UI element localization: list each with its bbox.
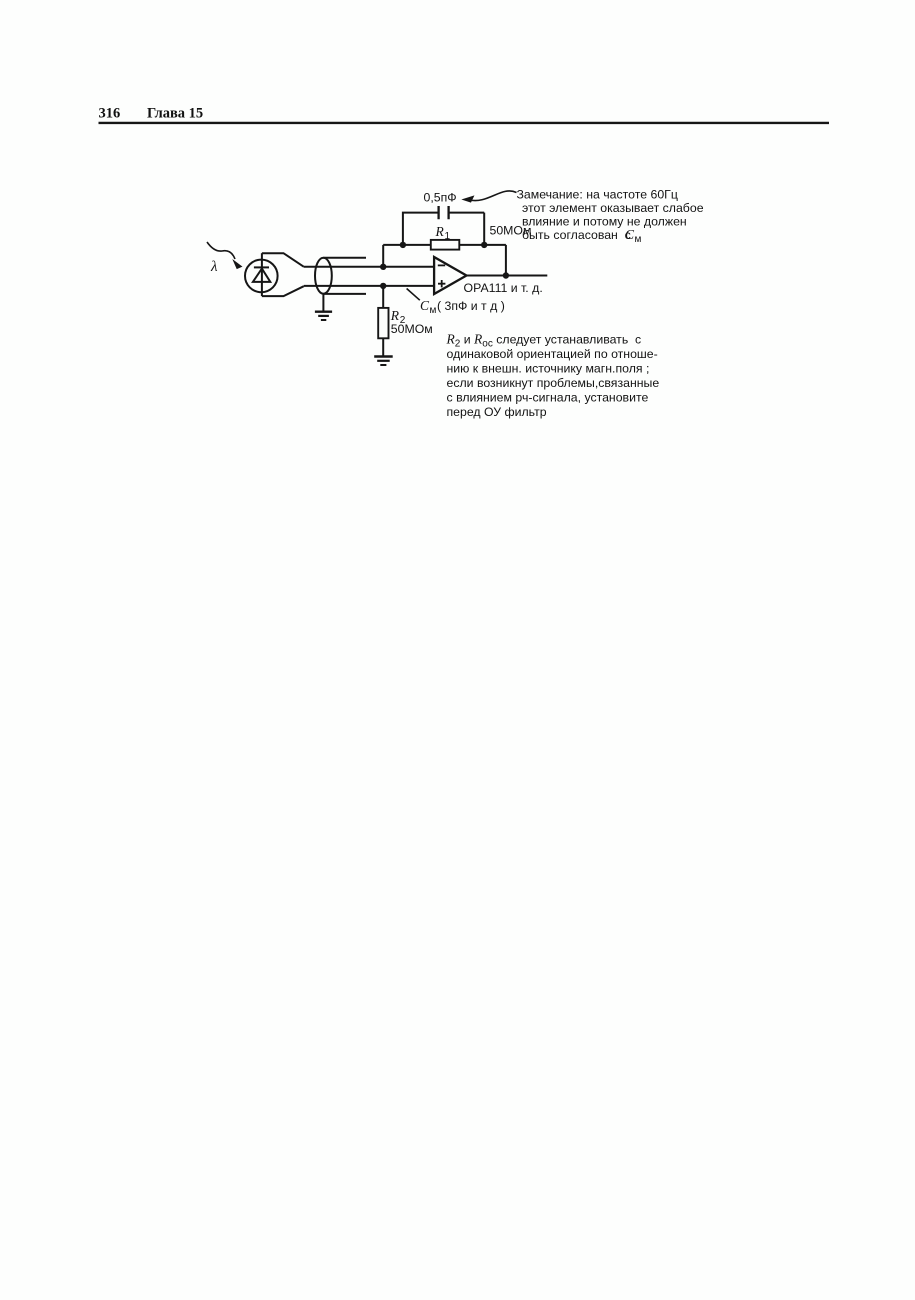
label R1 — [435, 224, 451, 242]
shield ground — [315, 294, 332, 320]
node: cap right junction — [481, 242, 487, 248]
pointer line to Cm label — [407, 289, 420, 301]
svg-text:быть согласован с: быть согласован с — [522, 228, 634, 242]
label R2 — [390, 308, 406, 326]
note text: Zamechanie 60Hz — [517, 188, 704, 246]
svg-text:Замечание: на частоте 60Гц: Замечание: на частоте 60Гц — [517, 188, 678, 202]
svg-text:λ: λ — [210, 259, 218, 275]
svg-text:м: м — [430, 305, 437, 316]
node: output feedback junction — [503, 272, 509, 278]
cable funnel top (PD1 to shielded pair) — [262, 253, 304, 266]
page header "316 Глава 15" — [99, 106, 204, 122]
svg-text:50МОм: 50МОм — [391, 322, 433, 336]
note text: R2 and Roc orientation — [446, 332, 660, 420]
cable funnel bottom — [262, 286, 304, 296]
node: inverting input junction — [380, 264, 386, 270]
wire: feedback left riser — [382, 245, 384, 267]
plus symbol U1 — [438, 280, 445, 287]
capacitor C1 0.5pF plates — [439, 206, 449, 219]
svg-text:влияние и потому не должен: влияние и потому не должен — [522, 215, 687, 229]
svg-text:перед ОУ фильтр: перед ОУ фильтр — [447, 405, 547, 419]
shield stub bottom — [323, 293, 366, 295]
wire: feedback right riser to output — [505, 245, 507, 276]
svg-text:( 3пФ и т д ): ( 3пФ и т д ) — [437, 299, 505, 313]
header rule — [99, 122, 830, 124]
lambda light arrow — [207, 242, 242, 275]
minus symbol U1 — [438, 264, 445, 266]
svg-text:R: R — [435, 224, 445, 239]
photodiode PD1 — [245, 253, 278, 296]
shield stub top — [323, 257, 366, 259]
resistor R1 50 MOm — [431, 240, 460, 250]
svg-text:одинаковой ориентацией по отно: одинаковой ориентацией по отноше- — [447, 347, 658, 361]
wire: capacitor branch — [403, 213, 484, 245]
label Cm (3pF etc) — [420, 298, 505, 316]
svg-text:R: R — [390, 308, 400, 323]
svg-text:C: C — [420, 298, 430, 313]
svg-text:если возникнут проблемы,связан: если возникнут проблемы,связанные — [447, 376, 660, 390]
svg-text:этот элемент оказывает слабое: этот элемент оказывает слабое — [522, 201, 704, 215]
svg-text:0,5пФ: 0,5пФ — [424, 191, 457, 205]
svg-text:ОРА111 и т. д.: ОРА111 и т. д. — [464, 281, 543, 295]
svg-text:с влиянием рч-сигнала, установ: с влиянием рч-сигнала, установите — [447, 391, 649, 405]
svg-text:нию к внешн. источнику магн.по: нию к внешн. источнику магн.поля ; — [447, 362, 650, 376]
cable shield ellipse — [315, 258, 332, 294]
op-amp U1 OPA111 — [434, 257, 466, 294]
curved pointer arrow from note to C1 — [468, 191, 517, 201]
resistor R2 50 MOm — [378, 286, 388, 356]
wire: bottom signal to op-amp non-inverting input — [304, 285, 434, 287]
wire: feedback rail — [383, 244, 506, 246]
svg-text:м: м — [635, 234, 642, 245]
svg-text:Глава 15: Глава 15 — [147, 106, 203, 122]
wire: top signal to op-amp inverting input — [304, 266, 435, 268]
svg-text:C: C — [625, 227, 635, 242]
svg-text:316: 316 — [99, 106, 121, 122]
node: non-inverting input junction — [380, 283, 386, 289]
node: cap left junction — [400, 242, 406, 248]
wire: U1 output — [467, 275, 548, 277]
ground under R2 — [374, 357, 393, 366]
svg-text:1: 1 — [445, 231, 451, 242]
